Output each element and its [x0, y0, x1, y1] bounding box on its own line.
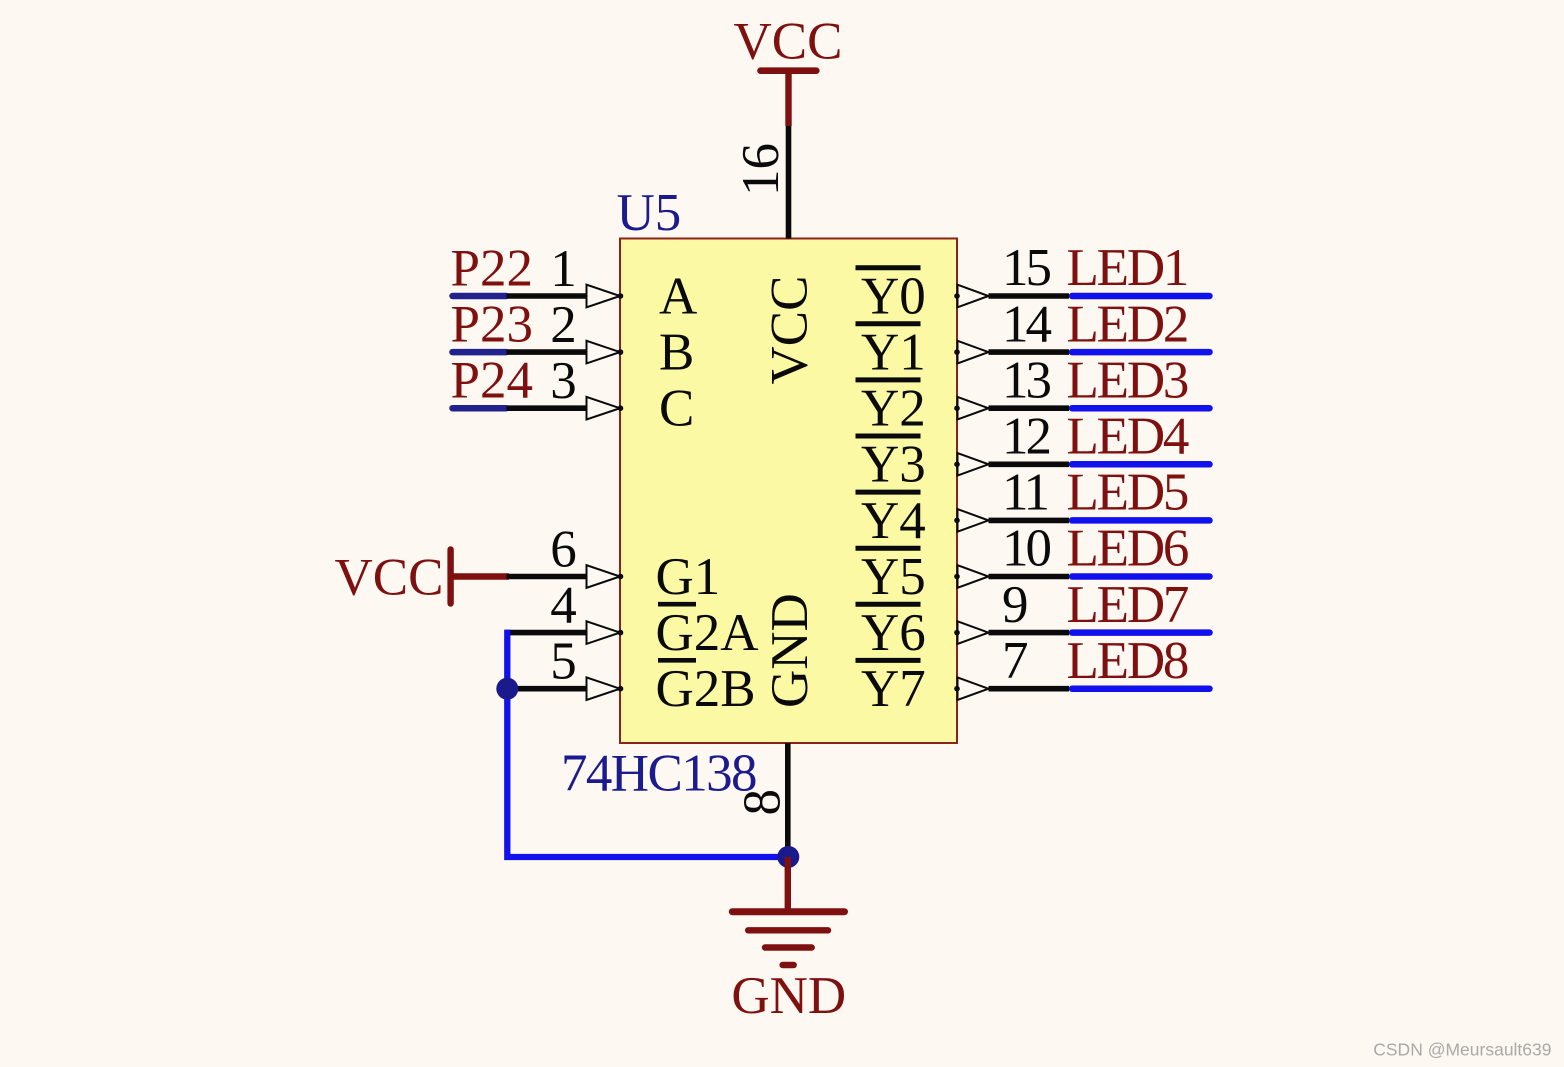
pin name Y4 (overbar) — [856, 492, 926, 550]
svg-text:C: C — [659, 380, 694, 438]
svg-text:Y7: Y7 — [861, 660, 926, 718]
wire net P22 / pin 1 — [453, 240, 624, 308]
svg-text:LED4: LED4 — [1067, 408, 1189, 466]
wire net LED5 / pin 11 — [954, 509, 1209, 532]
wire net P24 / pin 3 — [453, 352, 624, 420]
svg-text:P22: P22 — [451, 239, 533, 297]
pin 16 wire — [786, 126, 792, 239]
svg-text:2: 2 — [550, 296, 577, 354]
svg-text:CSDN @Meursault639: CSDN @Meursault639 — [1373, 1040, 1551, 1060]
svg-text:74HC138: 74HC138 — [561, 744, 756, 802]
pin name G2B (G overbar) — [656, 660, 756, 718]
svg-text:LED7: LED7 — [1067, 576, 1188, 634]
wire net LED2 / pin 14 — [954, 341, 1209, 364]
svg-text:P24: P24 — [451, 352, 533, 410]
svg-text:Y2: Y2 — [861, 380, 926, 438]
svg-text:LED8: LED8 — [1067, 632, 1188, 690]
svg-text:G2A: G2A — [656, 604, 759, 662]
svg-text:Y4: Y4 — [861, 492, 926, 550]
svg-text:LED5: LED5 — [1067, 464, 1188, 522]
svg-text:14: 14 — [1002, 295, 1052, 353]
svg-text:U5: U5 — [617, 184, 682, 242]
svg-text:G1: G1 — [656, 548, 721, 606]
pin 5 G2B wire — [507, 633, 624, 701]
wire net LED3 / pin 13 — [954, 397, 1209, 420]
pin name Y3 (overbar) — [856, 436, 926, 494]
svg-text:Y1: Y1 — [861, 324, 926, 382]
svg-text:5: 5 — [550, 633, 577, 691]
pin name Y2 (overbar) — [856, 380, 926, 438]
svg-text:12: 12 — [1002, 408, 1050, 466]
svg-text:GND: GND — [761, 593, 819, 708]
svg-text:13: 13 — [1002, 351, 1051, 409]
pin name Y7 (overbar) — [856, 660, 926, 718]
svg-text:VCC: VCC — [734, 12, 843, 70]
wire G2A/G2B to GND junction — [507, 630, 788, 857]
svg-text:9: 9 — [1002, 576, 1029, 634]
pin 6 G1 wire — [507, 520, 624, 588]
pin name Y0 (overbar) — [856, 267, 926, 325]
pin 4 G2A wire — [507, 576, 624, 644]
power port VCC (top) — [734, 12, 843, 126]
svg-text:Y5: Y5 — [861, 548, 926, 606]
wire net LED1 / pin 15 — [954, 285, 1209, 308]
svg-text:Y0: Y0 — [861, 267, 926, 325]
svg-text:P23: P23 — [451, 295, 533, 353]
svg-text:B: B — [659, 324, 694, 382]
pin 8 wire — [785, 743, 791, 857]
pin name Y1 (overbar) — [856, 324, 926, 382]
svg-text:A: A — [659, 267, 697, 325]
svg-text:LED2: LED2 — [1067, 295, 1188, 353]
junction dot at G2B — [496, 678, 518, 700]
pin name Y6 (overbar) — [856, 604, 926, 662]
wire net LED6 / pin 10 — [954, 565, 1209, 588]
IC U5 74HC138 body — [620, 239, 957, 744]
pin name G2A (G overbar) — [656, 604, 759, 662]
wire net LED4 / pin 12 — [954, 453, 1209, 476]
svg-text:LED1: LED1 — [1067, 239, 1188, 297]
svg-text:15: 15 — [1002, 239, 1051, 297]
wire net P23 / pin 2 — [453, 296, 624, 364]
svg-text:Y3: Y3 — [861, 436, 926, 494]
svg-text:10: 10 — [1002, 520, 1051, 578]
svg-text:11: 11 — [1002, 464, 1048, 522]
svg-text:LED3: LED3 — [1067, 351, 1188, 409]
wire net LED8 / pin 7 — [954, 677, 1209, 700]
wire net LED7 / pin 9 — [954, 621, 1209, 644]
power port VCC (left) — [335, 549, 510, 607]
svg-text:16: 16 — [732, 143, 790, 196]
svg-text:3: 3 — [550, 352, 577, 410]
power port GND (bottom) — [731, 857, 846, 1025]
svg-text:Y6: Y6 — [861, 604, 926, 662]
pin name Y5 (overbar) — [856, 548, 926, 606]
svg-text:G2B: G2B — [656, 660, 756, 718]
svg-text:7: 7 — [1002, 632, 1029, 690]
svg-text:GND: GND — [731, 967, 846, 1025]
svg-text:LED6: LED6 — [1067, 520, 1188, 578]
svg-text:VCC: VCC — [761, 276, 819, 385]
junction dot at GND — [777, 846, 799, 868]
svg-text:1: 1 — [550, 240, 577, 298]
svg-text:VCC: VCC — [335, 549, 444, 607]
svg-text:6: 6 — [550, 520, 577, 578]
svg-text:4: 4 — [550, 576, 577, 634]
svg-text:8: 8 — [734, 789, 792, 816]
